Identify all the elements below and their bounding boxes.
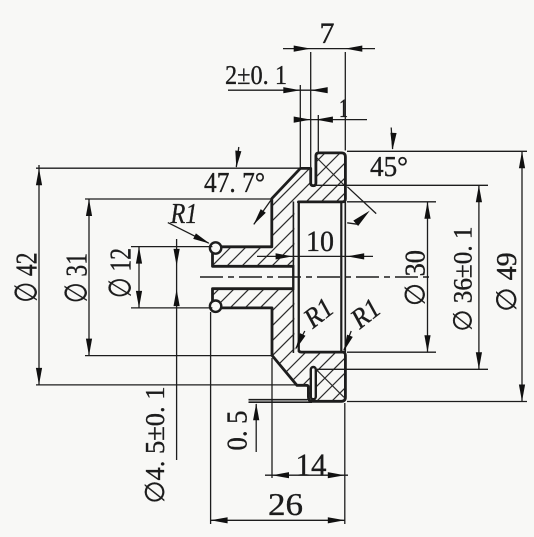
section hatching (205, 145, 352, 415)
svg-text:∅ 36±0. 1: ∅ 36±0. 1 (449, 227, 478, 332)
svg-text:∅ 30: ∅ 30 (401, 250, 432, 306)
dim 30 dimension line (427, 202, 429, 352)
svg-text:1: 1 (339, 94, 348, 123)
R1 boss leader arrow (193, 233, 210, 243)
dim 36 top extension line (312, 184, 488, 186)
svg-text:14: 14 (296, 447, 327, 483)
angle 45 arrow tail (391, 128, 392, 150)
dim 12 bottom arrow (136, 291, 142, 308)
angle 47.7 cone leader arrow (254, 209, 266, 225)
dim 12 dimension line (138, 247, 140, 308)
dim 7 left extension line (310, 52, 312, 168)
centerline (200, 276, 432, 278)
svg-text:2±0. 1: 2±0. 1 (225, 60, 287, 90)
dim 0.5 dimension line (255, 404, 257, 452)
dim 30 top arrow (424, 202, 430, 219)
dim 2 dimension line (228, 89, 327, 91)
svg-text:47. 7°: 47. 7° (204, 168, 265, 199)
dim 49 top arrow (519, 151, 525, 168)
dim 14 left extension line (271, 358, 273, 478)
dim 2 left extension line (299, 85, 301, 168)
dim 49 dimension line (521, 151, 523, 401)
dim 42 top arrow (36, 168, 42, 185)
dim 4.5 dimension line (176, 239, 178, 460)
dim 12 top arrow (136, 247, 142, 264)
svg-text:7: 7 (320, 17, 335, 50)
dim 31 bottom extension line (85, 355, 272, 357)
chamfer leader tail (347, 223, 357, 224)
dim 26 dimension line (211, 519, 345, 521)
dim 0.5 extension lower (249, 401, 313, 403)
dim 30 bottom extension line (347, 351, 436, 353)
dim 14 dimension line (265, 474, 348, 476)
dim 4.5 upper arrow (174, 249, 180, 266)
dim 26 left extension line (210, 312, 212, 524)
blind hole bottom face (292, 202, 294, 354)
R1 bore-right leader line (344, 331, 351, 350)
dim 7 right arrow (345, 46, 362, 52)
dim 10 dimension line (257, 255, 373, 257)
dim 31 bottom arrow (86, 339, 92, 356)
dim 36 bottom extension line (317, 368, 488, 370)
angle 47.7 arrow tail (236, 147, 239, 167)
dim 42 top extension line (36, 167, 300, 169)
R1 bore-right leader arrow (344, 335, 353, 352)
part cross-section outline (213, 153, 346, 401)
svg-text:∅4. 5±0. 1: ∅4. 5±0. 1 (140, 387, 170, 504)
angle 47.7 cone extension leader (254, 199, 272, 225)
svg-text:∅ 49: ∅ 49 (492, 252, 523, 311)
dim 2 right arrow (311, 87, 328, 93)
bead R1 at boss top corner (210, 242, 221, 253)
svg-text:0. 5: 0. 5 (223, 411, 254, 451)
dim 14/26 right extension line (344, 403, 346, 524)
right face edge through bore (344, 202, 346, 352)
dim 10 right arrow (347, 253, 364, 259)
dim 49 bottom extension line (347, 401, 527, 403)
hatch mask over thin wall (294, 203, 297, 351)
dim 49 top extension line (347, 150, 527, 152)
dim 1 dimension line (294, 119, 367, 121)
dim 14 right arrow (328, 472, 345, 478)
dim 42 bottom extension line (36, 384, 297, 386)
dim 7 left arrow (294, 46, 311, 52)
dim 7 right extension line (344, 52, 346, 151)
dim 31 dimension line (88, 199, 90, 356)
dim 7 dimension line (283, 48, 375, 50)
dim 26 right arrow (328, 517, 345, 523)
dim 2 left arrow (283, 87, 300, 93)
dim 36 bottom arrow (476, 352, 482, 369)
dim 1 right extension line (317, 115, 319, 153)
dim 12 top extension line (131, 246, 212, 248)
dim 36 top arrow (476, 185, 482, 202)
svg-text:∅ 42: ∅ 42 (9, 253, 44, 303)
bead R1 at boss bottom corner (210, 301, 221, 312)
svg-text:R1: R1 (297, 292, 340, 335)
dim 42 bottom arrow (36, 368, 42, 385)
recess opening edge (340, 203, 342, 351)
dim 1 left arrow (294, 117, 311, 123)
dim 49 bottom arrow (519, 385, 525, 402)
dim 0.5 extension upper (249, 399, 308, 401)
dim 42 dimension line (38, 165, 40, 385)
dim 30 bottom arrow (424, 335, 430, 352)
chamfer leader arrow (353, 211, 370, 226)
svg-text:∅ 31: ∅ 31 (59, 253, 94, 303)
dim 31 top extension line (85, 198, 272, 200)
svg-text:10: 10 (306, 225, 334, 258)
svg-text:R1: R1 (344, 293, 387, 336)
svg-text:45°: 45° (370, 151, 408, 183)
dim 26 left arrow (211, 517, 228, 523)
dim 30 top extension line (347, 201, 436, 203)
dim 36 dimension line (478, 185, 480, 369)
dim 10 left arrow (276, 253, 293, 259)
angle 47.7 down arrow (235, 151, 241, 168)
R1 boss leader line (168, 223, 209, 244)
dim 31 top arrow (86, 199, 92, 216)
angle 45 down arrow (390, 133, 396, 150)
dim 4.5 lower arrow (174, 289, 180, 306)
bottom relief groove lip (311, 367, 316, 399)
svg-text:∅ 12: ∅ 12 (103, 248, 138, 298)
R1 bore-left leader arrow (296, 333, 306, 350)
dim 12 bottom extension line (131, 307, 212, 309)
dim 0.5 arrow (253, 403, 259, 420)
R1 bore-left leader line (296, 331, 305, 349)
svg-text:R1: R1 (170, 199, 198, 230)
chamfer leader diagonal (347, 187, 376, 214)
dim 14 left arrow (272, 472, 289, 478)
svg-text:26: 26 (268, 486, 303, 522)
dim 1 right arrow (316, 117, 333, 123)
